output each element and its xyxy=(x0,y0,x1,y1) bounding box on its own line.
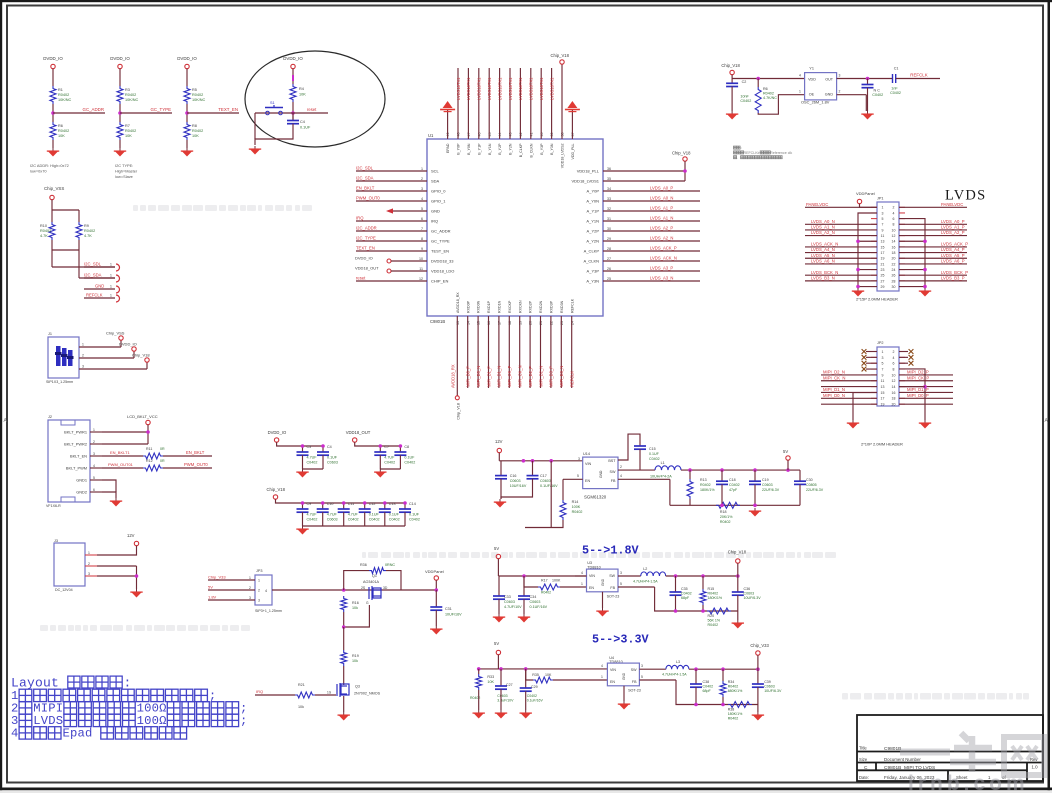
svg-text:1: 1 xyxy=(110,294,112,298)
svg-text:C33: C33 xyxy=(504,595,511,599)
svg-text:U1: U1 xyxy=(428,133,434,138)
svg-text:LVDS_A1_N: LVDS_A1_N xyxy=(811,225,835,230)
svg-text:LVDS_A4_P: LVDS_A4_P xyxy=(941,247,965,252)
svg-text:A_Y1N: A_Y1N xyxy=(586,219,599,224)
svg-text:J1: J1 xyxy=(48,332,52,336)
svg-text:10nF: 10nF xyxy=(740,95,749,99)
svg-text:18: 18 xyxy=(892,251,896,255)
svg-text:9: 9 xyxy=(421,247,423,251)
svg-text:LVDS_A4_N: LVDS_A4_N xyxy=(811,247,835,252)
svg-text:LVDS18TX1: LVDS18TX1 xyxy=(549,77,554,100)
svg-text:GND2: GND2 xyxy=(76,490,87,495)
svg-text:RXD2P: RXD2P xyxy=(529,300,533,313)
svg-text:27: 27 xyxy=(881,279,885,283)
svg-text:6: 6 xyxy=(893,217,895,221)
svg-text:VDD18_PLL: VDD18_PLL xyxy=(577,169,600,174)
svg-text:LVDS_A1_N: LVDS_A1_N xyxy=(650,215,673,220)
svg-text:4.7K: 4.7K xyxy=(40,234,48,238)
svg-text:4: 4 xyxy=(265,589,267,593)
svg-text:1: 1 xyxy=(249,576,251,580)
svg-text:LVDS_ACK_N: LVDS_ACK_N xyxy=(650,255,677,260)
svg-text:5: 5 xyxy=(882,362,884,366)
svg-text:C34: C34 xyxy=(530,595,537,599)
svg-text:R9: R9 xyxy=(84,224,89,228)
svg-text:BKLT_PWM: BKLT_PWM xyxy=(66,466,87,471)
svg-text:LVDS_BCK_P: LVDS_BCK_P xyxy=(941,270,968,275)
svg-text:reset: reset xyxy=(307,107,317,112)
svg-text:R33: R33 xyxy=(487,675,494,679)
svg-text:PANELVDC: PANELVDC xyxy=(806,202,828,207)
svg-text:R0402: R0402 xyxy=(728,685,739,689)
svg-text:REFCLK: REFCLK xyxy=(910,73,927,78)
svg-text:JP1: JP1 xyxy=(877,197,884,201)
svg-text:RXD3P: RXD3P xyxy=(550,300,554,313)
svg-text:B_Y0N: B_Y0N xyxy=(467,143,471,155)
svg-text:7: 7 xyxy=(882,367,884,371)
svg-text:C11: C11 xyxy=(348,502,355,506)
svg-text:PANELVDC: PANELVDC xyxy=(941,202,963,207)
svg-text:C9801B: C9801B xyxy=(430,319,445,324)
svg-text:5-->1.8V: 5-->1.8V xyxy=(582,544,640,558)
svg-text:R6: R6 xyxy=(58,124,63,128)
svg-text:16: 16 xyxy=(892,391,896,395)
svg-text:VDD18_OUT: VDD18_OUT xyxy=(355,265,379,270)
svg-text:J2: J2 xyxy=(48,415,52,419)
svg-text:C9801B: C9801B xyxy=(884,746,901,752)
svg-text:Chip_V18: Chip_V18 xyxy=(267,487,286,492)
svg-text:EN_BKLT: EN_BKLT xyxy=(186,450,205,455)
svg-text:R4: R4 xyxy=(299,87,304,91)
svg-text:C10: C10 xyxy=(327,502,334,506)
svg-text:A_Y2P: A_Y2P xyxy=(587,229,600,234)
svg-text:LVDS_A0_N: LVDS_A0_N xyxy=(811,219,835,224)
svg-text:4.7UF: 4.7UF xyxy=(307,456,318,460)
svg-text:10K/NC: 10K/NC xyxy=(192,98,206,102)
svg-text:LVDS18TX1: LVDS18TX1 xyxy=(487,77,492,100)
svg-text:31: 31 xyxy=(607,217,611,221)
svg-text:REFCLK: REFCLK xyxy=(570,298,574,313)
svg-text:2: 2 xyxy=(82,354,84,358)
svg-text:R0402: R0402 xyxy=(720,520,731,524)
svg-text:19: 19 xyxy=(518,321,522,325)
svg-text:4.7UH/4*4-1.5A: 4.7UH/4*4-1.5A xyxy=(633,580,658,584)
svg-text:1G: 1G xyxy=(327,691,332,695)
svg-text:2: 2 xyxy=(93,440,95,444)
svg-text:VDD_PLL: VDD_PLL xyxy=(571,144,575,160)
svg-text:C2: C2 xyxy=(742,80,747,84)
svg-text:RXD1N: RXD1N xyxy=(498,300,502,313)
svg-text:VDD18_OUT: VDD18_OUT xyxy=(346,430,371,435)
svg-text:4: 4 xyxy=(893,356,895,360)
svg-text:0R: 0R xyxy=(160,447,165,451)
svg-text:.: . xyxy=(782,156,783,160)
svg-text:REFCLK: REFCLK xyxy=(86,293,103,298)
svg-text:38: 38 xyxy=(561,133,565,137)
svg-text:0.1UF/16V: 0.1UF/16V xyxy=(540,484,558,488)
svg-text:42: 42 xyxy=(519,133,523,137)
svg-text:22UF/6.3V: 22UF/6.3V xyxy=(762,488,780,492)
svg-text:16: 16 xyxy=(487,321,491,325)
svg-text:23: 23 xyxy=(881,268,885,272)
svg-text:19: 19 xyxy=(881,257,885,261)
svg-text:Chip_V33: Chip_V33 xyxy=(208,575,226,580)
svg-text:VDD18_LVDS2: VDD18_LVDS2 xyxy=(561,143,565,168)
svg-text:C0402: C0402 xyxy=(348,518,359,522)
svg-text:SW: SW xyxy=(609,574,615,578)
svg-text:8: 8 xyxy=(893,223,895,227)
svg-text:I2C_SDL: I2C_SDL xyxy=(84,262,102,267)
svg-text:1: 1 xyxy=(88,551,90,555)
svg-text:I2C_TYPE: I2C_TYPE xyxy=(356,235,376,240)
svg-text:26: 26 xyxy=(607,267,611,271)
svg-text:R0402: R0402 xyxy=(572,510,583,514)
svg-text:LVDS_A6_N: LVDS_A6_N xyxy=(811,259,835,264)
svg-text:SW: SW xyxy=(631,668,637,672)
svg-text:PWM_OUT0: PWM_OUT0 xyxy=(184,462,208,467)
svg-text:LVDS_A0_P: LVDS_A0_P xyxy=(650,185,673,190)
svg-text:VDD18_LDO: VDD18_LDO xyxy=(431,269,454,274)
svg-text:B_Y3N: B_Y3N xyxy=(550,143,554,155)
svg-text:RXCKP: RXCKP xyxy=(508,300,512,313)
svg-text:LVDS_BCK_N: LVDS_BCK_N xyxy=(811,270,838,275)
svg-text:20: 20 xyxy=(529,321,533,325)
svg-text:R13: R13 xyxy=(700,478,707,482)
svg-text:RXD3N: RXD3N xyxy=(560,300,564,313)
svg-text:R20: R20 xyxy=(708,614,715,618)
svg-text:3: 3 xyxy=(641,664,643,668)
svg-text:10UF/16V: 10UF/16V xyxy=(510,484,527,488)
svg-text:N C: N C xyxy=(874,89,881,93)
svg-text:25: 25 xyxy=(607,277,611,281)
svg-text:EN: EN xyxy=(585,479,590,483)
svg-text:C0402: C0402 xyxy=(872,93,883,97)
svg-text:2S: 2S xyxy=(361,586,366,590)
svg-text:LVDS_A5_P: LVDS_A5_P xyxy=(941,253,965,258)
svg-text:R17: R17 xyxy=(541,579,548,583)
svg-text:R0402: R0402 xyxy=(708,623,719,627)
svg-text:DVDD_IO: DVDD_IO xyxy=(283,56,303,61)
svg-text:R0402: R0402 xyxy=(58,93,69,97)
svg-text:180K/1%: 180K/1% xyxy=(708,596,723,600)
svg-text:28: 28 xyxy=(892,279,896,283)
svg-text:18: 18 xyxy=(508,321,512,325)
svg-text:C27: C27 xyxy=(506,683,513,687)
svg-text:BST: BST xyxy=(608,459,616,463)
svg-text:A_Y1P: A_Y1P xyxy=(587,209,600,214)
svg-text:10UH/4*4-2A: 10UH/4*4-2A xyxy=(650,475,672,479)
svg-text:B_Y3P: B_Y3P xyxy=(540,143,544,155)
svg-text:GND: GND xyxy=(622,672,626,680)
svg-text:TEXT_EN: TEXT_EN xyxy=(356,245,375,250)
svg-text:3: 3 xyxy=(82,365,84,369)
svg-text:GND: GND xyxy=(599,470,603,478)
svg-text:49: 49 xyxy=(446,133,450,137)
svg-text:GC_ADDR: GC_ADDR xyxy=(431,229,451,234)
svg-text:I2C_ADDR: I2C_ADDR xyxy=(356,225,377,230)
svg-text:VIN: VIN xyxy=(589,574,595,578)
svg-text:46: 46 xyxy=(477,133,481,137)
svg-text:MIPI_D0_P: MIPI_D0_P xyxy=(466,366,471,387)
svg-text:10k: 10k xyxy=(352,606,358,610)
svg-text:13: 13 xyxy=(881,385,885,389)
svg-text:C0603: C0603 xyxy=(540,479,551,483)
svg-text:10K/NC: 10K/NC xyxy=(125,98,139,102)
svg-text:RXD0N: RXD0N xyxy=(477,300,481,313)
svg-text:48: 48 xyxy=(457,133,461,137)
svg-text:C0603: C0603 xyxy=(764,685,775,689)
svg-text:C0402: C0402 xyxy=(409,518,420,522)
svg-text:100Ω: 100Ω xyxy=(137,714,167,728)
svg-text:1: 1 xyxy=(581,582,583,586)
svg-text:10K: 10K xyxy=(299,93,306,97)
svg-text:Date:: Date: xyxy=(859,775,869,780)
svg-text:Chip_VSS: Chip_VSS xyxy=(44,186,64,191)
svg-text:27: 27 xyxy=(607,257,611,261)
svg-text:4: 4 xyxy=(601,664,603,668)
svg-text:R34: R34 xyxy=(728,680,735,684)
svg-text:Chip_V18: Chip_V18 xyxy=(721,63,740,68)
svg-text:36: 36 xyxy=(607,167,611,171)
svg-text:B_Y2N: B_Y2N xyxy=(509,143,513,155)
svg-text:SOT-23: SOT-23 xyxy=(628,689,641,693)
svg-text:OSC_26M_1.8V: OSC_26M_1.8V xyxy=(801,100,830,105)
svg-text:LCD_BKLT_VCC: LCD_BKLT_VCC xyxy=(127,414,158,419)
svg-text:C0603: C0603 xyxy=(762,483,773,487)
svg-text:12V: 12V xyxy=(127,533,135,538)
svg-text:5: 5 xyxy=(93,476,95,480)
svg-text:Size: Size xyxy=(859,757,868,762)
svg-text:3: 3 xyxy=(620,571,622,575)
svg-text:10UF/6.3V: 10UF/6.3V xyxy=(764,689,782,693)
svg-text:17: 17 xyxy=(881,397,885,401)
svg-text:45: 45 xyxy=(488,133,492,137)
svg-text:1: 1 xyxy=(82,343,84,347)
svg-text:11: 11 xyxy=(419,267,423,271)
svg-text:Chip_V18: Chip_V18 xyxy=(132,353,150,358)
svg-text:15: 15 xyxy=(881,391,885,395)
svg-text:3.3uF/10V: 3.3uF/10V xyxy=(497,699,514,703)
svg-text:0.1UF: 0.1UF xyxy=(389,513,400,517)
svg-text:REFCLKin: REFCLKin xyxy=(743,151,760,155)
svg-text:DVDD_IO: DVDD_IO xyxy=(110,56,130,61)
svg-text:I2C ADDR: High=0x72: I2C ADDR: High=0x72 xyxy=(30,163,69,168)
svg-text:R0402: R0402 xyxy=(84,229,95,233)
svg-text:2*10P 2.0MM HEADER: 2*10P 2.0MM HEADER xyxy=(861,442,903,447)
svg-text:C0805: C0805 xyxy=(806,483,817,487)
svg-text:SGM61320: SGM61320 xyxy=(584,495,607,500)
svg-text:0.1UF: 0.1UF xyxy=(404,456,415,460)
svg-text:Q3: Q3 xyxy=(355,685,360,689)
svg-text:3: 3 xyxy=(882,356,884,360)
svg-text:Title: Title xyxy=(859,746,867,751)
svg-text:25: 25 xyxy=(881,274,885,278)
svg-text:5: 5 xyxy=(421,207,423,211)
svg-text:4.7UH/4*4-1.5A: 4.7UH/4*4-1.5A xyxy=(662,673,687,677)
svg-text:4: 4 xyxy=(421,197,423,201)
svg-text:AO3401A: AO3401A xyxy=(363,580,380,584)
svg-text:MIPI_D3_N: MIPI_D3_N xyxy=(559,366,564,387)
svg-text:CHIP_EN: CHIP_EN xyxy=(431,279,448,284)
svg-text:GC_TYPE: GC_TYPE xyxy=(151,107,172,112)
svg-text:14: 14 xyxy=(466,321,470,325)
svg-text:A_Y0N: A_Y0N xyxy=(586,199,599,204)
svg-text:4: 4 xyxy=(581,571,583,575)
svg-text:R10: R10 xyxy=(40,224,47,228)
svg-text:6: 6 xyxy=(421,217,423,221)
svg-text:R15: R15 xyxy=(708,587,715,591)
svg-text:R21: R21 xyxy=(298,683,305,687)
svg-text:LVDS18TX1: LVDS18TX1 xyxy=(477,77,482,100)
svg-text:LVDS_A6_P: LVDS_A6_P xyxy=(941,259,965,264)
svg-text:MIPI_D2_N: MIPI_D2_N xyxy=(538,366,543,387)
svg-text:VDDPanel: VDDPanel xyxy=(425,569,444,574)
svg-text:0R: 0R xyxy=(160,459,165,463)
svg-text:C8: C8 xyxy=(404,445,409,449)
svg-text:C35: C35 xyxy=(681,587,688,591)
svg-text:24: 24 xyxy=(892,268,896,272)
svg-text:17: 17 xyxy=(498,321,502,325)
svg-text:MIPI_CK_N: MIPI_CK_N xyxy=(518,365,523,387)
svg-text:LVDS_A5_N: LVDS_A5_N xyxy=(811,253,835,258)
svg-text:FB: FB xyxy=(632,680,637,684)
svg-text:LVDS: LVDS xyxy=(33,714,63,728)
svg-text:Epad: Epad xyxy=(62,727,92,741)
svg-text:11: 11 xyxy=(881,379,885,383)
svg-text:SDA: SDA xyxy=(431,179,440,184)
svg-text:DC_12V04: DC_12V04 xyxy=(55,588,73,592)
svg-text:47pF: 47pF xyxy=(729,488,738,492)
svg-text:GC_TYPE: GC_TYPE xyxy=(431,239,450,244)
svg-text:L1: L1 xyxy=(661,461,665,465)
svg-text:AVDD18_RX: AVDD18_RX xyxy=(456,292,460,313)
svg-text:C18: C18 xyxy=(729,478,736,482)
svg-text:32: 32 xyxy=(607,207,611,211)
svg-text:20K/1%: 20K/1% xyxy=(720,515,733,519)
svg-text:9: 9 xyxy=(882,373,884,377)
svg-text:VDD: VDD xyxy=(808,77,816,81)
svg-text:C9801B_MIPI TO LVDS: C9801B_MIPI TO LVDS xyxy=(884,765,935,771)
svg-text:MIPI_D0_N: MIPI_D0_N xyxy=(823,393,845,398)
svg-text:B_CLKP: B_CLKP xyxy=(519,143,523,157)
svg-text:DVDD_IO: DVDD_IO xyxy=(177,56,197,61)
svg-text:33: 33 xyxy=(607,197,611,201)
svg-text:I2C_SDL: I2C_SDL xyxy=(356,165,374,170)
svg-text:5V: 5V xyxy=(783,449,788,454)
svg-text:180K/1%: 180K/1% xyxy=(728,712,743,716)
svg-text:R11: R11 xyxy=(146,447,152,451)
svg-text:G: G xyxy=(366,601,369,605)
svg-text:4.7UF: 4.7UF xyxy=(307,513,318,517)
svg-text:LVDS_A2_N: LVDS_A2_N xyxy=(811,230,835,235)
svg-text:RXCKN: RXCKN xyxy=(518,300,522,313)
svg-text:C38: C38 xyxy=(703,680,710,684)
svg-text:REFCLK: REFCLK xyxy=(570,371,575,387)
svg-text:low=0x70: low=0x70 xyxy=(30,169,47,174)
svg-text:Chip_V18: Chip_V18 xyxy=(672,151,691,156)
svg-text:C17: C17 xyxy=(540,474,547,478)
svg-text:A_Y2N: A_Y2N xyxy=(586,239,599,244)
svg-text:10: 10 xyxy=(419,257,423,261)
svg-text:0.1UF: 0.1UF xyxy=(369,513,380,517)
svg-text:GND: GND xyxy=(431,209,440,214)
svg-text:4.7UF: 4.7UF xyxy=(348,513,359,517)
svg-text:18: 18 xyxy=(892,397,896,401)
svg-text:C9: C9 xyxy=(307,502,312,506)
svg-text:VIN: VIN xyxy=(610,668,616,672)
svg-text:R3: R3 xyxy=(125,88,130,92)
svg-text:LVDS18TX1: LVDS18TX1 xyxy=(518,77,523,100)
svg-text:C3: C3 xyxy=(307,445,312,449)
svg-text:EN_BKLT: EN_BKLT xyxy=(356,185,375,190)
svg-text:R36: R36 xyxy=(360,563,367,567)
svg-text:LVDS18TX1: LVDS18TX1 xyxy=(539,77,544,100)
svg-text:1: 1 xyxy=(799,90,801,94)
svg-text:MIPI_D2_P: MIPI_D2_P xyxy=(907,370,929,375)
svg-text:C0402: C0402 xyxy=(740,99,751,103)
svg-text:R0402: R0402 xyxy=(40,229,51,233)
svg-text:44: 44 xyxy=(498,133,502,137)
svg-text:GND: GND xyxy=(825,93,834,97)
svg-text:C4: C4 xyxy=(300,120,305,124)
svg-text:4: 4 xyxy=(93,464,95,468)
svg-text:LVDS_B3_N: LVDS_B3_N xyxy=(811,275,835,280)
svg-text:LVDS_A0_N: LVDS_A0_N xyxy=(650,195,673,200)
svg-text:1: 1 xyxy=(421,167,423,171)
svg-text:14: 14 xyxy=(892,385,896,389)
svg-text:3: 3 xyxy=(839,74,841,78)
svg-text:2: 2 xyxy=(620,465,622,469)
svg-text:3: 3 xyxy=(93,452,95,456)
svg-text:Chip_VSS: Chip_VSS xyxy=(106,331,125,336)
svg-text:29: 29 xyxy=(881,285,885,289)
svg-text:R5: R5 xyxy=(192,88,197,92)
svg-text:8: 8 xyxy=(893,367,895,371)
svg-text:10K: 10K xyxy=(487,680,494,684)
svg-text:11: 11 xyxy=(881,234,885,238)
svg-text:5: 5 xyxy=(577,474,579,478)
svg-text:C0402: C0402 xyxy=(389,518,400,522)
svg-text:56K 1%: 56K 1% xyxy=(708,619,721,623)
svg-text:DVDD_IO: DVDD_IO xyxy=(119,342,137,347)
svg-text:C0402: C0402 xyxy=(681,592,692,596)
svg-text:37: 37 xyxy=(571,133,575,137)
svg-text:39: 39 xyxy=(550,133,554,137)
svg-text:Document Number: Document Number xyxy=(884,757,921,762)
svg-text:Chip_V18: Chip_V18 xyxy=(728,550,747,555)
svg-text:FB: FB xyxy=(611,479,616,483)
svg-text:I2C TYPE:: I2C TYPE: xyxy=(115,163,133,168)
svg-text:C: C xyxy=(864,765,868,771)
svg-text:MIPI_CK_P: MIPI_CK_P xyxy=(907,375,929,380)
svg-text:2: 2 xyxy=(893,206,895,210)
svg-text:GC_ADDR: GC_ADDR xyxy=(83,107,104,112)
svg-text:R0402: R0402 xyxy=(192,129,203,133)
svg-text:10: 10 xyxy=(892,228,896,232)
svg-text:C0402: C0402 xyxy=(703,685,714,689)
svg-text:22UF/6.3V: 22UF/6.3V xyxy=(806,488,824,492)
svg-text:3: 3 xyxy=(88,572,90,576)
svg-text:low=Slave: low=Slave xyxy=(115,174,133,179)
svg-text:C0603: C0603 xyxy=(510,479,521,483)
svg-text:RXD1P: RXD1P xyxy=(487,300,491,313)
svg-text:MIPI_D3_P: MIPI_D3_P xyxy=(549,366,554,387)
svg-text:OE: OE xyxy=(809,93,815,97)
svg-text:26: 26 xyxy=(892,274,896,278)
svg-text:4.7K: 4.7K xyxy=(84,234,92,238)
svg-text:GND: GND xyxy=(95,284,104,289)
svg-text:R0402: R0402 xyxy=(763,92,774,96)
svg-text:L2: L2 xyxy=(643,567,647,571)
